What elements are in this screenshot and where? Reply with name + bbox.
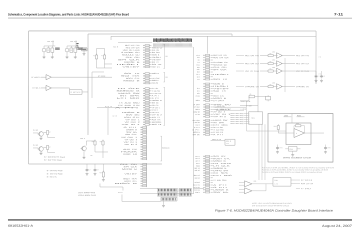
svg-text:SCI_TX: SCI_TX xyxy=(124,73,139,75)
svg-text:AUX_RX: AUX_RX xyxy=(123,148,137,151)
svg-text:CDL_OD: CDL_OD xyxy=(120,164,140,166)
svg-text:RESET: RESET xyxy=(213,86,229,88)
svg-text:MOSI_B: MOSI_B xyxy=(124,62,139,64)
svg-text:BT_MODE_B: BT_MODE_B xyxy=(32,77,41,79)
svg-text:BOOT_CTL: BOOT_CTL xyxy=(197,79,199,81)
svg-text:SW_B5: SW_B5 xyxy=(152,102,159,104)
svg-text:U2-1 B: U2-1 B xyxy=(118,192,123,194)
svg-text:U2: U2 xyxy=(166,56,168,58)
svg-text:EXT_MIC: EXT_MIC xyxy=(213,125,229,127)
svg-text:R501: R501 xyxy=(274,126,277,128)
svg-text:VIP_IN_2: VIP_IN_2 xyxy=(152,114,162,116)
svg-text:SW_B5: SW_B5 xyxy=(213,192,229,194)
svg-text:SCI_TX: SCI_TX xyxy=(197,74,200,76)
svg-text:RESET: RESET xyxy=(152,57,161,59)
svg-text:RESET: RESET xyxy=(197,69,200,71)
svg-text:U70-8: 800V FLLD: U70-8: 800V FLLD xyxy=(78,195,97,197)
svg-text:MODULE_CD: MODULE_CD xyxy=(152,47,163,49)
svg-text:MECH_GND_SPKR: MECH_GND_SPKR xyxy=(230,121,243,123)
svg-text:MISO_B: MISO_B xyxy=(152,73,159,75)
svg-text:G_PTT: G_PTT xyxy=(152,98,159,100)
svg-text:A_PTT: A_PTT xyxy=(213,184,227,187)
svg-text:5MHz Oscillator Circuit: 5MHz Oscillator Circuit xyxy=(283,156,312,159)
svg-text:SPI_CLK: SPI_CLK xyxy=(152,52,161,54)
svg-text:INT_SPK: INT_SPK xyxy=(120,95,143,97)
svg-text:U503: U503 xyxy=(272,82,275,84)
svg-text:LH_CLK: LH_CLK xyxy=(152,78,161,80)
svg-text:R7: R7 xyxy=(49,132,51,134)
svg-text:UNSW_B: UNSW_B xyxy=(152,100,162,102)
svg-text:SB9600_B: SB9600_B xyxy=(196,109,200,111)
svg-text:G_PTT: G_PTT xyxy=(124,127,138,129)
svg-text:VSTBY: VSTBY xyxy=(197,72,200,74)
svg-text:CDL_OD: CDL_OD xyxy=(152,50,160,52)
svg-text:IGN_CTL: IGN_CTL xyxy=(152,105,159,107)
svg-text:MDC_DRI_TXD: MDC_DRI_TXD xyxy=(245,55,260,57)
svg-text:INT_SPK: INT_SPK xyxy=(213,173,230,175)
svg-text:MISO_B: MISO_B xyxy=(115,183,137,185)
svg-text:MISO_B: MISO_B xyxy=(123,80,139,82)
svg-text:STROBE_CD: STROBE_CD xyxy=(197,57,200,59)
svg-text:CDL_OD: CDL_OD xyxy=(198,62,201,64)
svg-text:VCC_A: VCC_A xyxy=(47,40,52,43)
svg-text:MDC_DRI_CLK: MDC_DRI_CLK xyxy=(194,187,201,189)
svg-text:STROBE_CD: STROBE_CD xyxy=(213,62,229,64)
svg-text:SCI_RX: SCI_RX xyxy=(152,64,162,66)
svg-text:BOOT_CTL: BOOT_CTL xyxy=(152,66,160,68)
svg-text:3: 3 xyxy=(249,117,250,119)
svg-text:UNSW_B: UNSW_B xyxy=(193,132,200,134)
svg-text:VIP_IN_1: VIP_IN_1 xyxy=(195,156,200,158)
svg-text:A: A xyxy=(277,62,278,65)
svg-text:C7: C7 xyxy=(89,169,91,171)
svg-text:HOOK: HOOK xyxy=(152,122,164,124)
svg-text:OPT_B_SEL: OPT_B_SEL xyxy=(192,120,199,122)
svg-text:SB9600_B: SB9600_B xyxy=(196,100,200,102)
svg-text:VIP_IN_2: VIP_IN_2 xyxy=(124,144,137,146)
svg-text:SW_B5: SW_B5 xyxy=(126,114,140,116)
svg-text:MDC_DRI_CLK: MDC_DRI_CLK xyxy=(213,57,230,59)
svg-text:5: 5 xyxy=(249,121,250,123)
svg-text:MDC_DRI_TXD: MDC_DRI_TXD xyxy=(296,55,310,57)
svg-text:RESET: RESET xyxy=(117,64,140,66)
svg-text:OPT_B_SEL: OPT_B_SEL xyxy=(213,127,223,129)
svg-text:VCC_C: VCC_C xyxy=(80,138,85,140)
svg-text:SCI_TX: SCI_TX xyxy=(152,62,159,64)
svg-text:7-6: 7-6 xyxy=(319,57,321,59)
svg-text:5V_SW: 5V_SW xyxy=(33,130,39,132)
svg-text:MOSI_B: MOSI_B xyxy=(152,54,159,56)
svg-text:SCI_RX: SCI_RX xyxy=(121,75,140,77)
svg-text:5V_SW RXD/TX Flash: 5V_SW RXD/TX Flash xyxy=(44,157,65,159)
svg-text:VIP_IN_1: VIP_IN_1 xyxy=(213,114,231,116)
svg-text:Y500: Y500 xyxy=(289,149,293,151)
svg-text:R502: R502 xyxy=(296,123,299,125)
svg-text:NOTE: 1 PLC 1-1/4 PLTD 5/8W2 4: NOTE: 1 PLC 1-1/4 PLTD 5/8W2 40LH0 PL10 … xyxy=(252,203,292,205)
svg-text:MIC_HI: MIC_HI xyxy=(123,154,138,156)
svg-text:SCI_TX: SCI_TX xyxy=(213,91,226,93)
svg-text:VIP_OUT_2: VIP_OUT_2 xyxy=(125,139,138,141)
svg-text:R8: R8 xyxy=(92,141,94,143)
svg-text:MODULE_CD: MODULE_CD xyxy=(198,60,200,62)
svg-text:LH_CLK: LH_CLK xyxy=(213,165,232,167)
svg-text:U2-8: 5000 Fixed: U2-8: 5000 Fixed xyxy=(78,192,95,194)
svg-text:VIP_IN_2: VIP_IN_2 xyxy=(195,158,200,160)
svg-text:EMRG_SW: EMRG_SW xyxy=(213,170,229,172)
svg-text:U2-1 B: U2-1 B xyxy=(112,115,116,117)
svg-text:STROBE_CD: STROBE_CD xyxy=(121,52,141,54)
svg-text:IGN_CTL: IGN_CTL xyxy=(124,117,140,119)
svg-text:C502: C502 xyxy=(327,147,330,149)
svg-text:C501: C501 xyxy=(279,147,282,149)
svg-text:5V_SW: 5V_SW xyxy=(33,145,39,147)
svg-text:EXT_MIC: EXT_MIC xyxy=(117,98,143,100)
svg-text:1: 1 xyxy=(249,113,250,115)
svg-text:MDC_DRI_TXD: MDC_DRI_TXD xyxy=(213,55,228,57)
svg-text:August 24, 2007: August 24, 2007 xyxy=(322,224,352,228)
svg-text:C8: C8 xyxy=(97,169,99,171)
svg-text:MECH_GND_SPKR: MECH_GND_SPKR xyxy=(230,119,243,121)
svg-text:SB9600_B: SB9600_B xyxy=(152,80,159,82)
svg-text:B+ 5W RXD Flash: B+ 5W RXD Flash xyxy=(47,170,63,172)
svg-text:R_NET 47K: R_NET 47K xyxy=(71,92,81,94)
svg-text:VIP_OUT_1: VIP_OUT_1 xyxy=(152,107,160,109)
svg-text:LR: LR xyxy=(70,50,72,52)
svg-text:MECH_GND_SPKR: MECH_GND_SPKR xyxy=(230,123,243,125)
svg-text:MISO_B: MISO_B xyxy=(213,98,226,100)
svg-text:IGN_CTL: IGN_CTL xyxy=(125,134,137,136)
svg-text:SPI_CLK: SPI_CLK xyxy=(118,59,143,61)
svg-text:MOSI_B: MOSI_B xyxy=(197,67,200,69)
svg-text:BUS_PLUS: BUS_PLUS xyxy=(195,182,200,184)
svg-text:STROBE_CD: STROBE_CD xyxy=(195,192,200,194)
svg-text:MIC_LO: MIC_LO xyxy=(195,170,201,172)
svg-text:BOOT_CTL: BOOT_CTL xyxy=(213,158,230,160)
svg-text:MIC_HI: MIC_HI xyxy=(194,168,200,170)
svg-text:CDL_OD: CDL_OD xyxy=(126,57,142,59)
svg-text:R W: R W xyxy=(274,180,278,182)
svg-text:BOOT_CTL: BOOT_CTL xyxy=(197,91,200,93)
svg-text:RL_BL_TX: RL_BL_TX xyxy=(105,106,112,108)
svg-text:EMRG_SW: EMRG_SW xyxy=(118,93,141,95)
svg-text:UNSW_B: UNSW_B xyxy=(126,129,137,131)
svg-text:U502: U502 xyxy=(272,67,275,69)
svg-text:VIP_IN_1: VIP_IN_1 xyxy=(152,112,160,114)
svg-text:BT_MODE: BT_MODE xyxy=(98,76,105,78)
svg-text:MODULE_CD: MODULE_CD xyxy=(122,54,141,56)
svg-text:OPT_B_SEL: OPT_B_SEL xyxy=(152,88,158,90)
svg-text:VIP_IN_1: VIP_IN_1 xyxy=(124,142,138,144)
svg-text:SPI_CLK: SPI_CLK xyxy=(213,69,228,71)
svg-text:VIP_OUT_1: VIP_OUT_1 xyxy=(121,137,137,139)
svg-text:CONN_A_CD: CONN_A_CD xyxy=(212,138,221,141)
svg-text:HOOK: HOOK xyxy=(196,165,200,167)
svg-text:HOOK: HOOK xyxy=(121,151,140,153)
svg-text:VIP_OUT_1: VIP_OUT_1 xyxy=(125,119,139,121)
svg-text:SPK_LO: SPK_LO xyxy=(194,175,201,177)
svg-text:MDC_DRI_CLK: MDC_DRI_CLK xyxy=(296,63,309,65)
svg-text:LH_CLK: LH_CLK xyxy=(194,107,201,109)
svg-text:UNC_CD_FLAG: UNC_CD_FLAG xyxy=(196,54,200,57)
svg-text:UNSW_B: UNSW_B xyxy=(122,112,140,114)
svg-text:A: A xyxy=(277,85,278,88)
svg-text:VCC_B: VCC_B xyxy=(113,46,118,48)
svg-text:Figure 7-6. HUD4022B4/HUE4046: Figure 7-6. HUD4022B4/HUE4046A Controlle… xyxy=(215,209,333,213)
svg-text:VCC_A: VCC_A xyxy=(70,40,75,43)
svg-text:EMRG_SW: EMRG_SW xyxy=(152,83,159,85)
svg-text:VSTBY: VSTBY xyxy=(124,173,137,175)
svg-text:TX_AUD_SND: TX_AUD_SND xyxy=(213,179,227,182)
svg-text:SCI_RX: SCI_RX xyxy=(197,76,200,78)
svg-text:MIC_HI: MIC_HI xyxy=(152,124,163,126)
svg-text:A: A xyxy=(277,69,278,72)
svg-text:TX_AUD_SND: TX_AUD_SND xyxy=(119,101,142,104)
svg-text:SB9600_B: SB9600_B xyxy=(213,168,226,170)
svg-text:BT_SEL_B: BT_SEL_B xyxy=(33,88,41,90)
svg-text:Schematics, Component Location: Schematics, Component Location Diagrams,… xyxy=(8,12,129,16)
svg-text:SCI_RX: SCI_RX xyxy=(123,178,137,180)
svg-text:MDC_DRI_TXD: MDC_DRI_TXD xyxy=(193,185,200,187)
svg-text:C1: C1 xyxy=(318,76,320,78)
svg-text:INT_SPK: INT_SPK xyxy=(213,122,226,124)
svg-text:UNSW_B: UNSW_B xyxy=(213,189,228,191)
svg-text:MDC_DRI_CLK: MDC_DRI_CLK xyxy=(245,63,259,65)
svg-text:VSTBY: VSTBY xyxy=(213,88,229,90)
svg-text:7-11: 7-11 xyxy=(334,12,343,16)
svg-text:SCI_RX: SCI_RX xyxy=(213,156,225,158)
svg-text:47K: 47K xyxy=(90,155,93,157)
svg-text:4: 4 xyxy=(249,119,250,121)
svg-text:5V_WD 1.8: 5V_WD 1.8 xyxy=(301,180,312,182)
svg-text:MECH_GND_SPKR: MECH_GND_SPKR xyxy=(231,113,244,115)
svg-text:R10: R10 xyxy=(99,172,102,174)
svg-text:EXT_MIC: EXT_MIC xyxy=(213,175,234,177)
svg-text:SW_B5: SW_B5 xyxy=(193,134,200,136)
svg-text:SPI_CLK: SPI_CLK xyxy=(197,64,201,66)
svg-text:RESET: RESET xyxy=(213,74,229,76)
svg-text:EMRG_SW: EMRG_SW xyxy=(193,111,200,113)
svg-text:R9: R9 xyxy=(100,141,102,143)
svg-text:2: 2 xyxy=(249,115,250,117)
svg-text:R7: R7 xyxy=(49,147,51,149)
svg-text:A: A xyxy=(296,132,297,135)
svg-text:MECH_GND_SPKR: MECH_GND_SPKR xyxy=(230,115,243,117)
svg-text:U3: U3 xyxy=(166,77,168,79)
svg-text:BOOT_CTL: BOOT_CTL xyxy=(124,181,137,183)
svg-text:VIP_IN_2: VIP_IN_2 xyxy=(213,116,226,118)
svg-text:G_PTT: G_PTT xyxy=(192,129,199,131)
svg-text:STROBE_CD: STROBE_CD xyxy=(296,86,310,88)
svg-text:1 2 4: 1 2 4 xyxy=(274,183,278,185)
svg-text:R4: R4 xyxy=(101,55,103,57)
svg-text:MISO_B: MISO_B xyxy=(213,161,226,163)
svg-text:1 2 3: 1 2 3 xyxy=(226,143,229,145)
svg-text:ROW_1 8V_CM: ROW_1 8V_CM xyxy=(301,183,314,185)
svg-text:R5: R5 xyxy=(250,94,252,96)
svg-text:U501: U501 xyxy=(272,59,275,61)
svg-text:VIP_OUT_2: VIP_OUT_2 xyxy=(152,110,158,112)
svg-text:MECH_GND_SPKR: MECH_GND_SPKR xyxy=(230,117,243,119)
svg-text:R3: R3 xyxy=(93,55,95,57)
svg-text:SCI_RX: SCI_RX xyxy=(197,88,200,90)
svg-text:VSTBY: VSTBY xyxy=(122,66,139,68)
svg-text:MDL: MDL xyxy=(251,118,254,120)
svg-text:VIP_OUT_2: VIP_OUT_2 xyxy=(125,122,140,124)
svg-text:B+ 5W TXD Flash: B+ 5W TXD Flash xyxy=(47,173,63,175)
svg-text:SPI_CLK: SPI_CLK xyxy=(124,166,139,168)
svg-text:LR: LR xyxy=(47,50,49,52)
svg-text:SW_B5: SW_B5 xyxy=(126,132,137,134)
svg-text:EMRG_SW: EMRG_SW xyxy=(213,120,228,122)
svg-text:BOOT_CTL: BOOT_CTL xyxy=(126,78,140,80)
svg-text:VSTBY: VSTBY xyxy=(152,59,161,61)
svg-text:For Vdd on 5VR and 3V3B1, 3V3L: For Vdd on 5VR and 3V3B1, 3V3LT is not c… xyxy=(262,166,335,169)
svg-text:B+ 5W CTL: B+ 5W CTL xyxy=(47,176,57,178)
svg-text:MODULE_CD: MODULE_CD xyxy=(213,64,228,66)
svg-text:7-6: 7-6 xyxy=(319,74,321,76)
svg-text:6816532H01-A: 6816532H01-A xyxy=(8,224,34,228)
svg-text:MDC_DRI_TXD: MDC_DRI_TXD xyxy=(125,45,141,47)
svg-text:LH_CLK: LH_CLK xyxy=(118,88,143,90)
svg-text:LIGHT_OD: LIGHT_OD xyxy=(217,106,224,108)
svg-text:INT_SPK: INT_SPK xyxy=(195,114,200,116)
svg-text:VIP_IN_1: VIP_IN_1 xyxy=(122,124,140,126)
svg-text:MDC_DRI_CLK: MDC_DRI_CLK xyxy=(126,47,141,49)
svg-text:SYNTH_CS 28: SYNTH_CS 28 xyxy=(241,101,251,103)
svg-text:MOSI_B: MOSI_B xyxy=(122,169,137,171)
svg-text:U500: U500 xyxy=(272,51,275,53)
svg-text:STROBE_CD: STROBE_CD xyxy=(245,86,260,88)
svg-text:EMISSION: EMISSION xyxy=(162,147,169,149)
svg-text:CDL_OD: CDL_OD xyxy=(213,67,228,69)
svg-text:U9A: U9A xyxy=(253,180,256,183)
svg-text:BOOT_CTL: BOOT_CTL xyxy=(213,95,224,97)
svg-text:LH_DATA: LH_DATA xyxy=(193,103,201,106)
svg-text:MOSI_B: MOSI_B xyxy=(213,83,224,85)
svg-text:5V_SW TXD Flash: 5V_SW TXD Flash xyxy=(44,160,62,162)
svg-text:G_PTT: G_PTT xyxy=(213,187,227,189)
svg-text:SCI_TX: SCI_TX xyxy=(213,79,227,81)
svg-text:SB9600_B: SB9600_B xyxy=(116,90,139,92)
svg-text:MDL_B: MDL_B xyxy=(226,141,231,143)
svg-text:C2: C2 xyxy=(323,76,325,78)
svg-text:MISO_B: MISO_B xyxy=(197,93,200,95)
svg-text:A: A xyxy=(277,54,278,57)
svg-text:VIP_OUT_2: VIP_OUT_2 xyxy=(213,111,225,113)
svg-text:A+_B ALT: A+_B ALT xyxy=(301,187,311,190)
